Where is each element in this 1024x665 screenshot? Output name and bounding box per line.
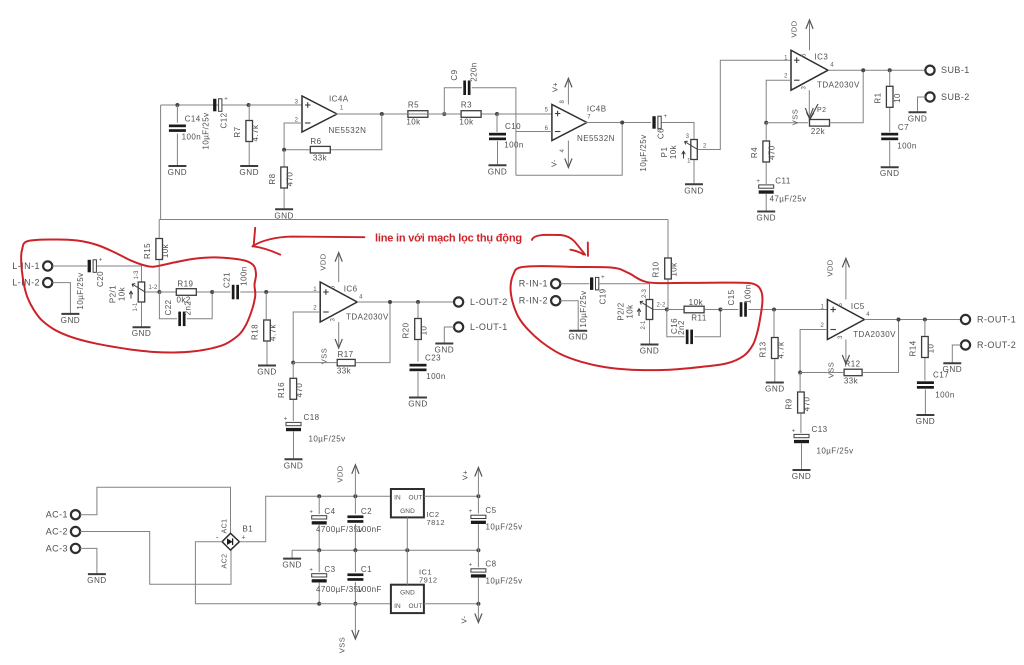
ground R-OUT-2	[943, 362, 961, 364]
junction after R11	[718, 308, 722, 312]
ground R7	[240, 165, 258, 167]
supply V- arrow	[477, 604, 479, 621]
svg-text:1: 1	[313, 287, 317, 293]
svg-text:10k: 10k	[689, 298, 704, 307]
svg-text:C3: C3	[324, 565, 335, 574]
svg-text:33k: 33k	[313, 154, 328, 163]
svg-text:R12: R12	[844, 360, 860, 369]
wire IC6 output	[357, 301, 453, 303]
svg-text:7812: 7812	[427, 518, 446, 527]
junction IC6 out a	[388, 300, 392, 304]
terminal AC-3	[71, 544, 80, 553]
junction input node	[175, 103, 179, 107]
svg-text:47µF/25v: 47µF/25v	[769, 195, 806, 204]
ground C14	[168, 165, 186, 167]
capacitor C6	[652, 116, 655, 129]
junction after R19	[210, 290, 214, 294]
regulator IC2	[391, 489, 424, 517]
svg-text:10µF/25v: 10µF/25v	[639, 134, 648, 171]
svg-text:P2: P2	[817, 107, 826, 114]
svg-text:C11: C11	[775, 177, 791, 186]
svg-text:100nF: 100nF	[357, 585, 382, 594]
junction IC6 feedback node	[291, 361, 295, 365]
ground R18	[258, 365, 276, 367]
svg-text:2n2: 2n2	[677, 320, 686, 335]
svg-text:R3: R3	[461, 101, 472, 110]
junction IC3 out a	[861, 68, 865, 72]
junction VSS rail C3	[317, 602, 321, 606]
wire bridge plus to VDD rail	[239, 496, 319, 541]
junction mid rail C4	[317, 548, 321, 552]
svg-text:5: 5	[331, 285, 337, 289]
svg-text:+: +	[469, 509, 473, 515]
svg-text:4: 4	[866, 312, 870, 318]
svg-text:4700µF/35v: 4700µF/35v	[316, 525, 363, 534]
svg-text:V-: V-	[460, 615, 469, 623]
svg-text:4: 4	[830, 63, 834, 69]
svg-text:1: 1	[820, 305, 824, 311]
ground AC-3	[88, 573, 106, 575]
svg-text:C10: C10	[505, 122, 521, 131]
svg-text:AC-1: AC-1	[46, 510, 68, 520]
supply VDD IC3	[809, 22, 811, 50]
svg-text:470: 470	[295, 383, 304, 398]
svg-text:+: +	[756, 179, 760, 185]
svg-text:C17: C17	[933, 371, 949, 380]
svg-text:7: 7	[587, 115, 591, 121]
svg-text:+: +	[242, 535, 247, 542]
resistor R16	[290, 378, 297, 399]
svg-text:R7: R7	[233, 126, 242, 137]
wire IC4A feedback	[330, 114, 382, 150]
junction L wiper node	[157, 290, 161, 294]
svg-text:+: +	[601, 275, 605, 281]
terminal R-IN-1	[551, 279, 560, 288]
svg-text:100n: 100n	[935, 391, 955, 400]
terminal L-OUT-1	[454, 322, 463, 331]
svg-text:P2/1: P2/1	[109, 285, 118, 303]
wire IC2 out to V+	[424, 495, 479, 497]
resistor R1	[886, 86, 893, 107]
svg-text:220n: 220n	[470, 62, 479, 82]
resistor R18	[264, 320, 271, 341]
resistor R12	[844, 369, 862, 376]
junction V+ node	[476, 494, 480, 498]
resistor R3	[461, 111, 481, 118]
svg-text:IC5: IC5	[851, 302, 865, 311]
junction mid rail C5	[476, 548, 480, 552]
wire R-IN-1 to C19	[560, 283, 589, 285]
capacitor C8	[471, 569, 486, 572]
resistor R20	[415, 319, 422, 340]
svg-text:1-3: 1-3	[134, 270, 140, 280]
svg-text:TDA2030V: TDA2030V	[817, 81, 860, 90]
wire IC4B feedback bottom	[516, 123, 622, 176]
resistor R6	[310, 146, 330, 153]
svg-text:10: 10	[420, 326, 429, 336]
svg-text:3: 3	[802, 85, 808, 89]
svg-text:R-IN-1: R-IN-1	[519, 279, 548, 289]
wire AC-1 to bridge	[80, 487, 230, 533]
wire wiper to R11	[667, 309, 684, 311]
svg-text:SUB-1: SUB-1	[941, 65, 970, 75]
resistor R7	[246, 121, 253, 142]
svg-text:GND: GND	[239, 168, 259, 177]
junction IC4B output	[620, 121, 624, 125]
svg-text:5: 5	[838, 302, 844, 306]
svg-text:5: 5	[802, 53, 808, 57]
terminal L-IN-2	[43, 278, 52, 287]
svg-text:R11: R11	[691, 313, 707, 322]
resistor R14	[922, 337, 929, 358]
svg-text:2-3: 2-3	[642, 288, 648, 298]
junction mid rail C2	[353, 548, 357, 552]
svg-text:10: 10	[893, 93, 902, 103]
wire P2/2 to ground	[649, 320, 651, 345]
junction mid rail regulators	[405, 548, 409, 552]
svg-text:R13: R13	[759, 341, 768, 357]
terminal AC-1	[71, 510, 80, 519]
svg-text:GND: GND	[916, 417, 936, 426]
wire bridge minus to VSS rail	[195, 542, 319, 604]
svg-text:100n: 100n	[744, 284, 753, 304]
wire C6 to P1	[662, 123, 694, 140]
svg-text:10k: 10k	[459, 118, 474, 127]
svg-text:33k: 33k	[844, 377, 859, 386]
power-amp IC6	[320, 282, 357, 322]
svg-text:3: 3	[331, 317, 337, 321]
svg-text:4.7k: 4.7k	[251, 124, 260, 141]
svg-text:22k: 22k	[811, 127, 826, 136]
svg-text:AC-3: AC-3	[46, 543, 68, 553]
svg-text:GND: GND	[765, 385, 785, 394]
ground L-IN-2	[61, 313, 79, 315]
capacitor C1	[347, 573, 363, 576]
ground C18	[285, 458, 303, 460]
svg-text:C15: C15	[727, 289, 736, 305]
svg-text:TDA2030V: TDA2030V	[853, 330, 896, 339]
svg-text:VSS: VSS	[791, 109, 800, 125]
svg-text:C21: C21	[223, 272, 232, 288]
svg-text:L-OUT-2: L-OUT-2	[470, 297, 508, 307]
svg-text:AC-2: AC-2	[46, 527, 68, 537]
terminal SUB-2	[925, 92, 934, 101]
capacitor C19	[590, 277, 593, 290]
svg-text:IN: IN	[394, 494, 401, 501]
svg-text:2n2: 2n2	[184, 301, 193, 316]
supply V+ IC4B	[567, 80, 569, 104]
svg-text:10k: 10k	[161, 243, 170, 258]
op-amp IC4B	[552, 105, 587, 141]
svg-text:R17: R17	[337, 350, 353, 359]
junction IC5 input node	[772, 308, 776, 312]
supply VSS IC6	[338, 322, 340, 346]
svg-text:IC4B: IC4B	[587, 105, 607, 114]
wire IC2 GND pin	[406, 517, 408, 550]
wire GND stub	[291, 550, 293, 558]
svg-text:GND: GND	[792, 472, 812, 481]
svg-text:100nF: 100nF	[357, 525, 382, 534]
svg-text:C12: C12	[220, 112, 229, 128]
svg-text:L-IN-1: L-IN-1	[12, 261, 40, 271]
svg-text:R14: R14	[909, 340, 918, 356]
supply VDD IC6	[338, 255, 340, 282]
capacitor C17	[917, 381, 934, 384]
wire IC3 pin2 loop	[766, 80, 791, 123]
capacitor C2	[347, 515, 363, 518]
svg-text:line in với mạch lọc thụ động: line in với mạch lọc thụ động	[375, 233, 522, 245]
svg-text:C6: C6	[657, 128, 666, 139]
svg-text:VSS: VSS	[827, 362, 836, 378]
capacitor C12	[213, 99, 216, 112]
ground SUB-2	[909, 111, 927, 113]
svg-text:P2/2: P2/2	[617, 302, 626, 320]
wire C20 to P2/1	[97, 266, 142, 282]
svg-text:C18: C18	[303, 413, 319, 422]
svg-text:2: 2	[784, 74, 788, 80]
svg-text:10µF/25v: 10µF/25v	[202, 112, 211, 149]
junction R3 output	[495, 112, 499, 116]
wire VDD rail	[319, 495, 391, 497]
terminal L-OUT-2	[454, 297, 463, 306]
svg-text:R5: R5	[408, 101, 419, 110]
wire L-OUT-1 to ground	[444, 327, 454, 344]
red annotation right arrow	[532, 235, 585, 255]
terminal R-OUT-2	[961, 340, 970, 349]
svg-text:+: +	[99, 258, 103, 264]
svg-text:33k: 33k	[337, 367, 352, 376]
supply VDD IC5	[845, 260, 847, 299]
wire IC4A output	[335, 113, 408, 115]
wire R19 to C21	[212, 291, 230, 293]
regulator IC1	[391, 585, 424, 613]
svg-text:R15: R15	[143, 243, 152, 259]
svg-text:R20: R20	[402, 322, 411, 338]
svg-text:R8: R8	[268, 173, 277, 184]
svg-text:100n: 100n	[504, 141, 524, 150]
potentiometer P1	[691, 140, 698, 160]
svg-text:V+: V+	[461, 470, 470, 480]
ground C17	[916, 414, 934, 416]
svg-text:GND: GND	[408, 400, 428, 409]
pot P2/1 small arrow	[130, 292, 132, 299]
wire C19 to P2/2	[599, 284, 649, 299]
ground C11	[757, 211, 775, 213]
svg-text:GND: GND	[87, 576, 107, 585]
svg-text:VDD: VDD	[826, 259, 835, 276]
capacitor C7	[881, 133, 898, 136]
svg-text:2: 2	[820, 323, 824, 329]
svg-text:+: +	[284, 416, 288, 422]
svg-text:100n: 100n	[240, 266, 249, 286]
svg-text:GND: GND	[640, 347, 660, 356]
wire IC5 output	[864, 319, 961, 321]
svg-text:10k: 10k	[406, 118, 421, 127]
junction IC6 out b	[416, 300, 420, 304]
svg-text:10k: 10k	[626, 304, 635, 319]
svg-text:VDD: VDD	[790, 20, 799, 37]
svg-text:GND: GND	[684, 186, 704, 195]
ground C23	[409, 397, 427, 399]
svg-text:P1: P1	[660, 147, 669, 158]
svg-text:L-OUT-1: L-OUT-1	[470, 322, 508, 332]
svg-text:IN: IN	[394, 603, 401, 610]
potentiometer P2	[810, 120, 830, 127]
junction IC4A output	[380, 112, 384, 116]
terminal AC-2	[71, 527, 80, 536]
ground P2/1	[133, 326, 151, 328]
wire line-in bus	[159, 219, 668, 221]
svg-text:+: +	[469, 563, 473, 569]
capacitor C3	[312, 574, 327, 577]
svg-text:-: -	[216, 533, 219, 542]
svg-text:R9: R9	[785, 398, 794, 409]
ground mid rail	[283, 558, 301, 560]
wire IC6 pin2 loop	[293, 312, 320, 363]
resistor R4	[763, 141, 770, 162]
pot P2/2 small arrow	[638, 309, 640, 316]
svg-text:10µF/25v: 10µF/25v	[579, 290, 588, 327]
capacitor C18	[286, 422, 301, 425]
svg-text:GND: GND	[284, 461, 304, 470]
svg-text:C14: C14	[185, 115, 201, 124]
wire IC4B pin6	[516, 131, 552, 133]
svg-text:C5: C5	[485, 506, 496, 515]
svg-text:C23: C23	[425, 354, 441, 363]
svg-text:+: +	[663, 114, 667, 120]
svg-text:GND: GND	[168, 168, 188, 177]
svg-text:10µF/25v: 10µF/25v	[76, 272, 85, 309]
svg-text:GND: GND	[400, 590, 415, 597]
pot P1 small arrow	[683, 152, 685, 159]
svg-text:NE5532N: NE5532N	[329, 126, 367, 135]
svg-text:3: 3	[838, 335, 844, 339]
supply VSS IC5	[845, 340, 847, 363]
svg-text:10k: 10k	[118, 286, 127, 301]
wire IC1 GND pin	[406, 550, 408, 585]
junction IC3 out b	[888, 68, 892, 72]
svg-text:R1: R1	[873, 92, 882, 103]
ground C7	[881, 166, 899, 168]
resistor R9	[798, 392, 805, 413]
ground L-OUT-1	[435, 343, 453, 345]
svg-text:TDA2030V: TDA2030V	[346, 313, 389, 322]
svg-text:C22: C22	[164, 299, 173, 315]
wire P1 to ground	[693, 160, 695, 184]
svg-text:+: +	[309, 510, 313, 516]
supply VSS IC3 pin3	[808, 90, 810, 123]
wire GND mid rail	[292, 549, 478, 551]
svg-text:C1: C1	[361, 565, 372, 574]
svg-text:GND: GND	[568, 333, 588, 342]
terminal SUB-1	[925, 66, 934, 75]
svg-text:100n: 100n	[182, 133, 202, 142]
supply VDD arrow	[354, 467, 356, 497]
resistor R17	[337, 359, 355, 366]
svg-text:GND: GND	[282, 561, 302, 570]
capacitor C4	[312, 516, 327, 519]
svg-text:1-2: 1-2	[149, 285, 159, 291]
svg-text:R4: R4	[750, 147, 759, 158]
capacitor C14	[169, 125, 186, 128]
junction VDD rail C2	[353, 494, 357, 498]
wire IC4A pin2 input	[284, 123, 302, 150]
junction IC4A pin2 node	[282, 148, 286, 152]
svg-text:V+: V+	[551, 82, 560, 92]
wire IC3 output	[828, 69, 925, 71]
svg-text:SUB-2: SUB-2	[941, 92, 970, 102]
svg-text:1: 1	[784, 56, 788, 62]
wire AC-3 to ground	[80, 548, 97, 574]
svg-text:GND: GND	[488, 167, 508, 176]
junction V- node	[476, 602, 480, 606]
junction VSS rail C1	[353, 602, 357, 606]
capacitor C11	[759, 185, 774, 188]
resistor R15	[156, 239, 163, 260]
wire P2/1 wiper	[145, 291, 159, 293]
svg-text:R10: R10	[652, 261, 661, 277]
svg-text:B1: B1	[243, 525, 254, 534]
power-amp IC3	[791, 50, 828, 90]
terminal R-IN-2	[551, 296, 560, 305]
ground R13	[766, 382, 784, 384]
svg-text:GND: GND	[756, 214, 776, 223]
svg-text:IC4A: IC4A	[329, 95, 349, 104]
wire to IC4B +input	[497, 113, 552, 115]
wire R11 to C15	[720, 309, 738, 311]
junction VDD rail C4	[317, 494, 321, 498]
svg-text:10µF/25v: 10µF/25v	[485, 523, 522, 532]
capacitor C13	[794, 434, 809, 437]
wire VSS net to pot	[766, 122, 808, 124]
capacitor C16	[667, 310, 685, 337]
wire P2 to IC3 output	[830, 70, 864, 123]
wire P2/2 wiper	[653, 309, 667, 311]
svg-text:C13: C13	[811, 425, 827, 434]
svg-text:1-1: 1-1	[133, 302, 139, 312]
svg-text:+: +	[224, 97, 228, 103]
svg-text:OUT: OUT	[408, 603, 422, 610]
wire L-IN-2 to ground	[52, 283, 70, 314]
svg-text:100n: 100n	[426, 372, 446, 381]
junction IC5 out b	[923, 318, 927, 322]
svg-text:R16: R16	[277, 382, 286, 398]
svg-text:8: 8	[560, 99, 566, 103]
capacitor C21	[232, 285, 235, 300]
svg-text:C4: C4	[324, 507, 335, 516]
wire R-OUT-2 to ground	[952, 345, 961, 363]
svg-text:C7: C7	[898, 123, 909, 132]
junction R5-R3	[442, 112, 446, 116]
resistor R19	[176, 289, 196, 296]
red annotation left arrow	[253, 237, 365, 247]
junction IC5 feedback node	[798, 371, 802, 375]
svg-text:R19: R19	[177, 279, 193, 288]
svg-text:R18: R18	[251, 324, 260, 340]
svg-text:VDD: VDD	[319, 253, 328, 270]
junction R wiper node	[665, 308, 669, 312]
junction after C12	[247, 103, 251, 107]
red annotation loop left filter	[21, 239, 256, 352]
wire IC5 pin2 loop	[800, 330, 827, 373]
svg-text:470: 470	[286, 172, 295, 187]
wire to IC4A +input	[249, 104, 302, 106]
bridge rectifier B1	[222, 533, 239, 550]
op-amp IC4A	[302, 96, 337, 132]
supply V- IC4B	[567, 141, 569, 166]
svg-text:NE5532N: NE5532N	[577, 134, 615, 143]
svg-text:1: 1	[340, 106, 344, 112]
